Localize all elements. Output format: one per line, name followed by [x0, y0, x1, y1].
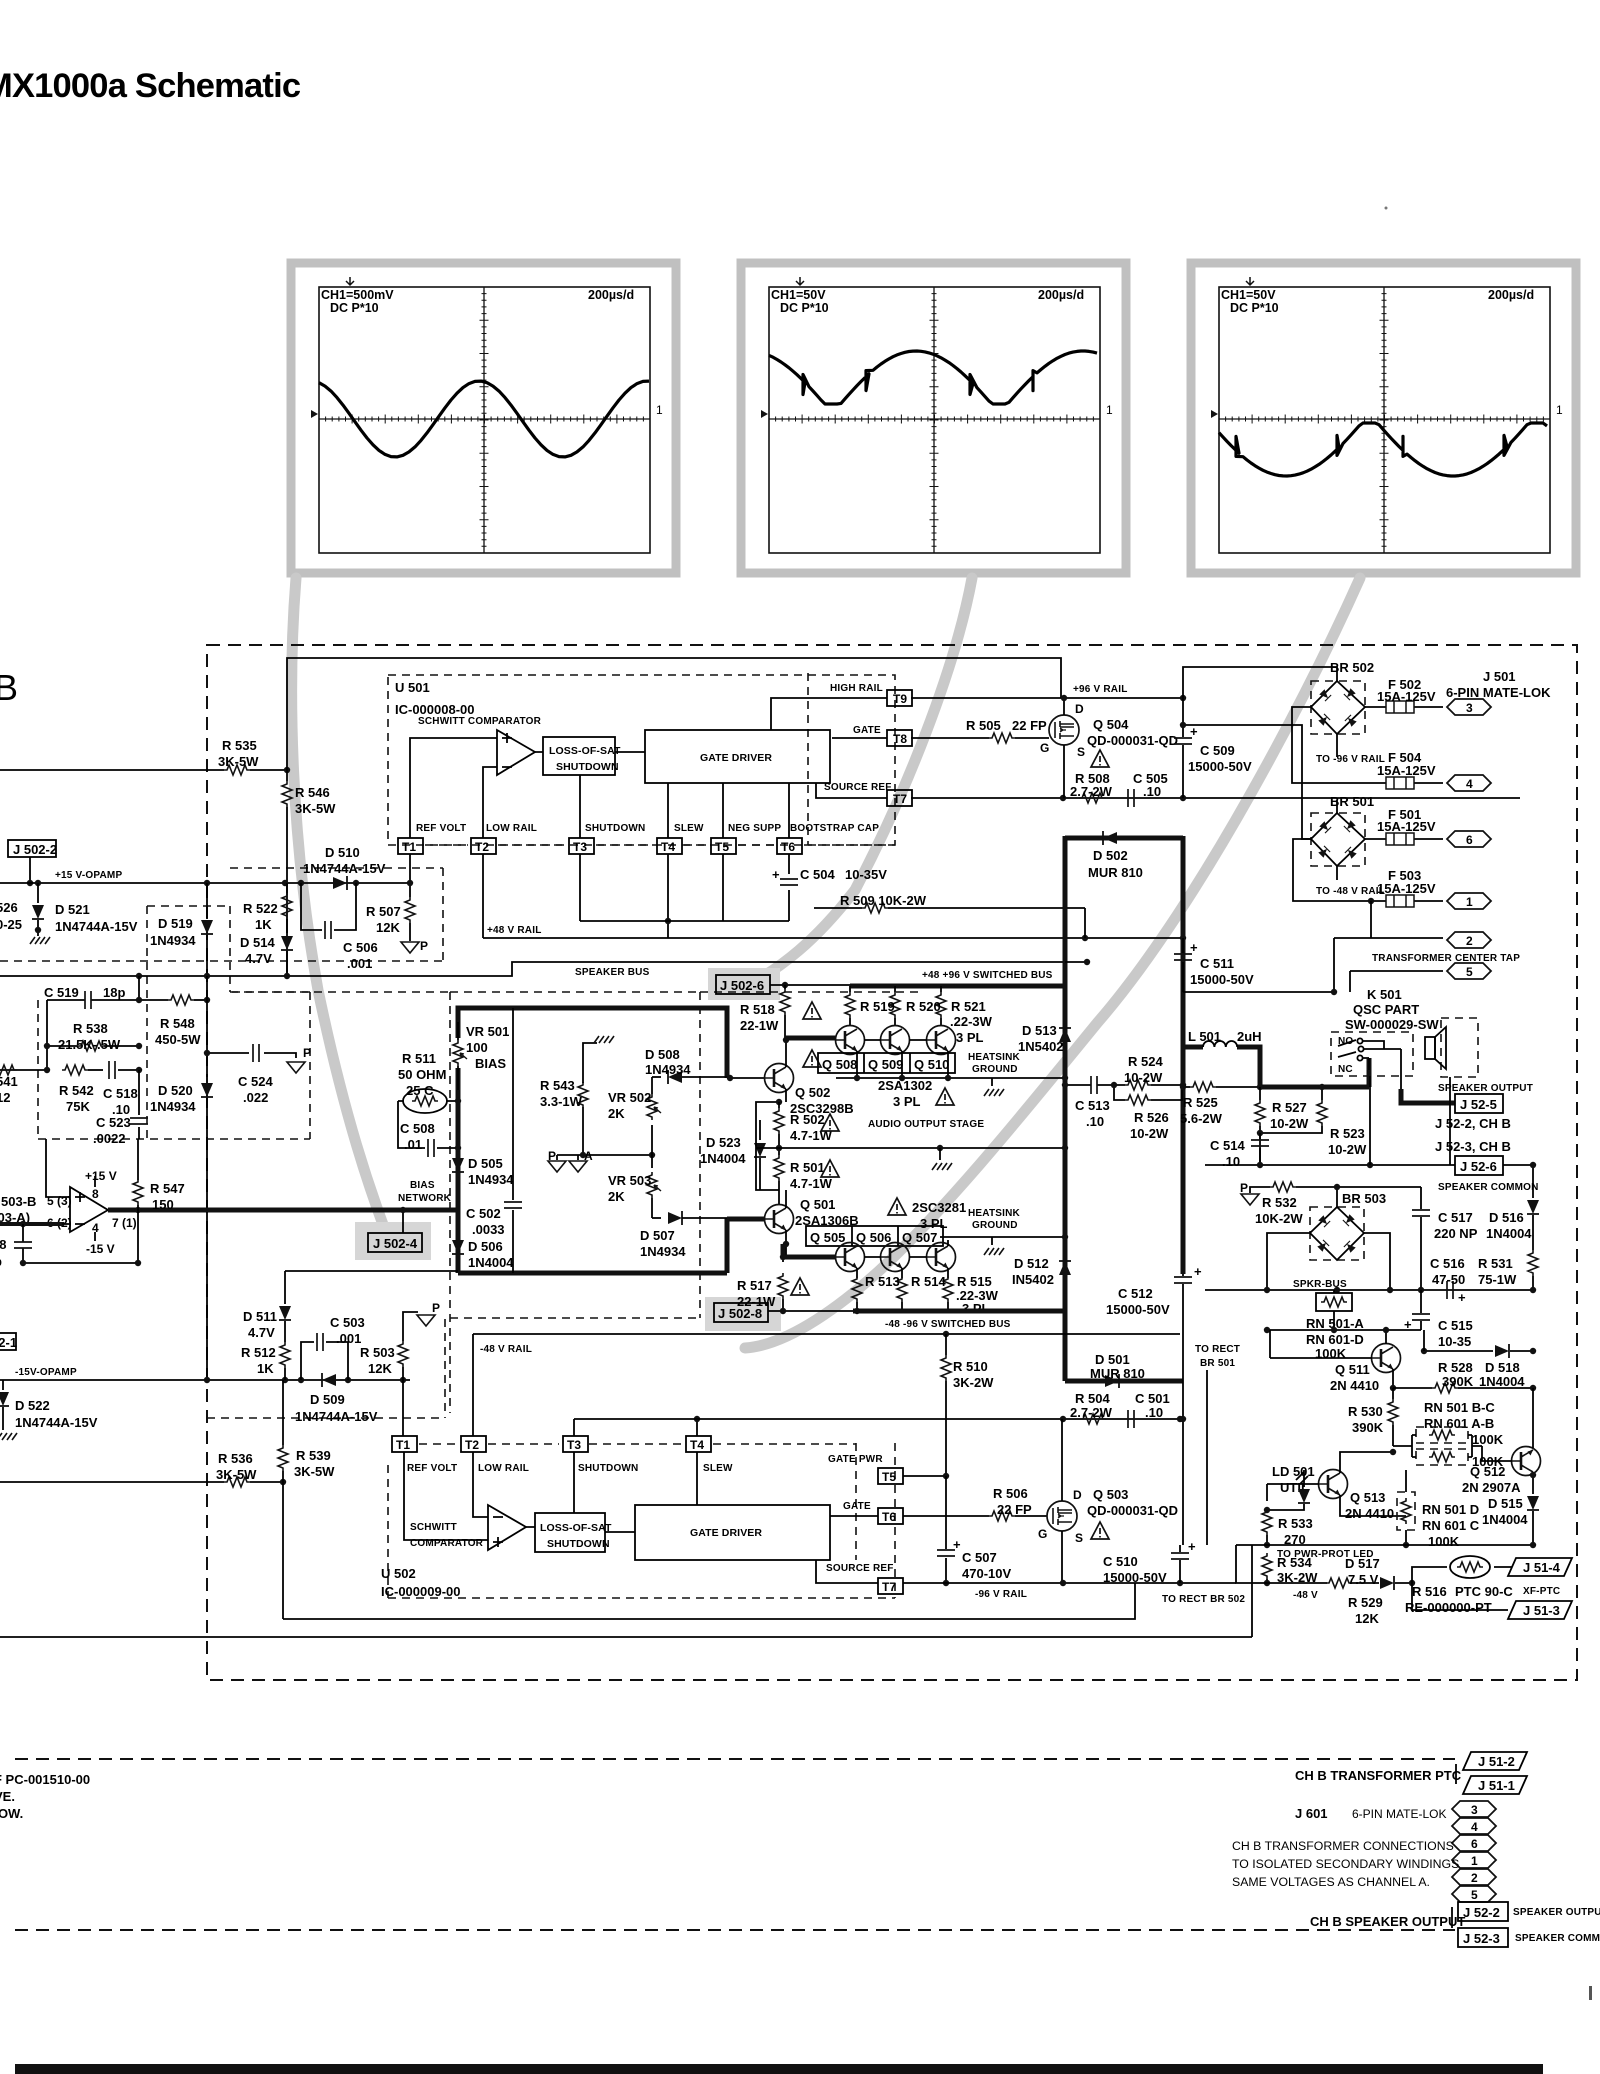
svg-text:R 520: R 520 — [906, 999, 941, 1014]
resistor R528 — [1393, 1387, 1432, 1389]
resistor R509 — [814, 908, 1085, 938]
svg-text:T8: T8 — [893, 732, 907, 746]
terminal T5 upper — [711, 838, 736, 854]
svg-text:6-PIN MATE-LOK: 6-PIN MATE-LOK — [1446, 685, 1551, 700]
wire Q512 collector to D515 — [1532, 1472, 1534, 1494]
svg-text:1N4934: 1N4934 — [150, 933, 196, 948]
svg-text:3K-5W: 3K-5W — [294, 1464, 335, 1479]
grey halo behind J502-6 — [708, 968, 780, 1000]
resistors R519 R520 R521 — [850, 986, 941, 1026]
diode D508 — [652, 1076, 661, 1078]
svg-text:5: 5 — [1466, 965, 1473, 979]
svg-text:10-2W: 10-2W — [1270, 1116, 1309, 1131]
tick J51 — [1455, 1764, 1457, 1784]
resistor R517 — [782, 1257, 784, 1262]
svg-text:.001: .001 — [336, 1331, 361, 1346]
svg-text:SCHWITT COMPARATOR: SCHWITT COMPARATOR — [418, 716, 542, 727]
terminal T6 lower — [878, 1508, 903, 1524]
svg-text:3K-5W: 3K-5W — [295, 801, 336, 816]
connector J51-4 — [1508, 1558, 1572, 1576]
svg-text:7 (1): 7 (1) — [112, 1216, 137, 1230]
svg-text:T5: T5 — [715, 840, 729, 854]
capacitor C509 — [1182, 698, 1184, 798]
svg-text:R 536: R 536 — [218, 1451, 253, 1466]
wire BR502 bottom stub — [1336, 734, 1338, 757]
svg-text:+: + — [772, 867, 780, 882]
svg-text:COMPARATOR: COMPARATOR — [410, 1538, 484, 1549]
svg-text:DC P*10: DC P*10 — [1230, 301, 1279, 315]
svg-text:D 513: D 513 — [1022, 1023, 1057, 1038]
resistor R533 — [1266, 1484, 1268, 1501]
warning R501 — [821, 1160, 839, 1177]
svg-text:LOW RAIL: LOW RAIL — [486, 823, 537, 834]
svg-text:75-1W: 75-1W — [1478, 1272, 1517, 1287]
capacitor C523 — [138, 1070, 140, 1139]
svg-text:22 FP: 22 FP — [1012, 718, 1047, 733]
svg-text:2uH: 2uH — [1237, 1029, 1262, 1044]
svg-text:15000-50V: 15000-50V — [1106, 1302, 1170, 1317]
svg-text:R 546: R 546 — [295, 785, 330, 800]
wire Q511 emitter row — [1392, 1369, 1394, 1388]
svg-text:BOOTSTRAP CAP: BOOTSTRAP CAP — [790, 823, 879, 834]
svg-text:R 533: R 533 — [1278, 1516, 1313, 1531]
svg-text:R 521: R 521 — [951, 999, 986, 1014]
wire T4 slew lower — [696, 1419, 698, 1505]
dashed box opamp feedback network — [38, 906, 310, 1139]
capacitor C501 — [1128, 1410, 1134, 1428]
svg-text:IC-000008-00: IC-000008-00 — [395, 702, 475, 717]
connector J502-4 — [368, 1233, 422, 1252]
wire op-amp -input thick — [0, 1222, 64, 1226]
wire lower bank base rail — [864, 1256, 927, 1258]
svg-text:R 522: R 522 — [243, 901, 278, 916]
bridge BR503 — [1310, 1207, 1364, 1260]
svg-text:4.7V: 4.7V — [245, 951, 272, 966]
svg-text:RN 601 A-B: RN 601 A-B — [1424, 1416, 1494, 1431]
zener D522 — [2, 1380, 4, 1390]
svg-text:10-35: 10-35 — [1438, 1334, 1471, 1349]
wire op-amp output bus — [108, 1208, 458, 1213]
diode D519 — [206, 883, 208, 918]
svg-text:C 518: C 518 — [103, 1086, 138, 1101]
svg-text:R 512: R 512 — [241, 1345, 276, 1360]
svg-text:+: + — [1458, 1290, 1466, 1305]
diode D512 — [1059, 1261, 1071, 1275]
bias network thick frame — [458, 1008, 727, 1273]
svg-text:SPEAKER COMMON: SPEAKER COMMON — [1438, 1182, 1539, 1193]
capacitor C508 — [398, 1101, 458, 1148]
svg-text:T9: T9 — [893, 692, 907, 706]
svg-text:10-2W: 10-2W — [1130, 1126, 1169, 1141]
svg-text:LOW.: LOW. — [0, 1806, 23, 1821]
svg-text:47-50: 47-50 — [1432, 1272, 1465, 1287]
svg-text:1N4934: 1N4934 — [645, 1062, 691, 1077]
svg-text:3 PL: 3 PL — [893, 1094, 921, 1109]
wire high-rail riser — [287, 658, 1061, 770]
svg-text:B: B — [0, 667, 18, 708]
svg-text:1N4934: 1N4934 — [640, 1244, 686, 1259]
svg-text:SHUTDOWN: SHUTDOWN — [547, 1538, 610, 1550]
svg-text:R 535: R 535 — [222, 738, 257, 753]
wire T7 source ref — [816, 783, 1063, 798]
pin 1 hex — [1447, 893, 1491, 909]
svg-text:GATE DRIVER: GATE DRIVER — [700, 752, 772, 764]
transistor Q505 — [836, 1243, 865, 1272]
grey photo-callout swoosh to J502-8 — [745, 578, 1360, 1348]
connector J502-6 — [716, 975, 770, 994]
svg-text:RN 501 D: RN 501 D — [1422, 1502, 1479, 1517]
svg-text:.0022: .0022 — [93, 1131, 126, 1146]
connector J52-5 — [1455, 1094, 1503, 1113]
wire audio mid rail — [756, 1147, 1065, 1149]
svg-text:R 548: R 548 — [160, 1016, 195, 1031]
svg-text:1N4934: 1N4934 — [150, 1099, 196, 1114]
svg-text:C 515: C 515 — [1438, 1318, 1473, 1333]
capacitor C515 — [1420, 1290, 1422, 1330]
wire T4 slew — [667, 783, 669, 938]
svg-text:MUR 810: MUR 810 — [1090, 1366, 1145, 1381]
svg-text:IC-000009-00: IC-000009-00 — [381, 1584, 461, 1599]
scope 2 graticule ticks — [769, 287, 1100, 553]
resistor R541 cut — [0, 1069, 47, 1071]
svg-text:T7: T7 — [893, 792, 907, 806]
svg-text:Q 501: Q 501 — [800, 1197, 835, 1212]
svg-text:C 510: C 510 — [1103, 1554, 1138, 1569]
svg-text:200µs/d: 200µs/d — [1488, 288, 1534, 302]
svg-text:R 511: R 511 — [402, 1051, 436, 1066]
wire op-amp feedback bottom — [23, 1210, 138, 1263]
svg-text:+96 V RAIL: +96 V RAIL — [1073, 684, 1128, 695]
wire SPKR bus rail — [1205, 1289, 1533, 1291]
svg-text:MX1000a Schematic: MX1000a Schematic — [0, 67, 301, 105]
svg-text:0-25: 0-25 — [0, 917, 22, 932]
svg-text:PTC 90-C: PTC 90-C — [1455, 1584, 1513, 1599]
svg-text:15000-50V: 15000-50V — [1103, 1570, 1167, 1585]
svg-text:C 503: C 503 — [330, 1315, 365, 1330]
ground A bias — [577, 1155, 579, 1160]
svg-text:G: G — [1038, 1527, 1047, 1541]
scan speck — [1589, 1986, 1592, 2000]
scan speck top — [1385, 207, 1388, 210]
svg-text:15A-125V: 15A-125V — [1377, 881, 1436, 896]
svg-text:.022: .022 — [243, 1090, 268, 1105]
zener D514 — [281, 936, 293, 950]
svg-text:J 52-3, CH B: J 52-3, CH B — [1435, 1139, 1511, 1154]
svg-text:1: 1 — [1471, 1854, 1478, 1868]
svg-text:CH B SPEAKER OUTPUT: CH B SPEAKER OUTPUT — [1310, 1914, 1465, 1929]
svg-text:C 512: C 512 — [1118, 1286, 1153, 1301]
comparator U502 — [488, 1505, 526, 1550]
block LOSS-OF-SAT U502 — [535, 1513, 605, 1552]
svg-text:R 532: R 532 — [1262, 1195, 1297, 1210]
svg-text:10-2W: 10-2W — [1328, 1142, 1367, 1157]
scope 1 graticule — [319, 287, 650, 553]
transistor Q502 — [765, 1064, 794, 1093]
svg-text:.10: .10 — [1143, 784, 1161, 799]
wire Q502 emitter column — [756, 1089, 786, 1190]
svg-text:RE-000000-PT: RE-000000-PT — [1405, 1600, 1492, 1615]
svg-text:P: P — [1240, 1181, 1248, 1195]
svg-text:TO -96 V RAIL: TO -96 V RAIL — [1316, 754, 1385, 765]
svg-text:Q 505: Q 505 — [810, 1230, 845, 1245]
svg-text:J 52-2, CH B: J 52-2, CH B — [1435, 1116, 1511, 1131]
svg-text:Q 509: Q 509 — [868, 1057, 903, 1072]
svg-text:R 503: R 503 — [360, 1345, 395, 1360]
svg-text:1: 1 — [1466, 895, 1473, 909]
svg-text:4: 4 — [1471, 1820, 1478, 1834]
svg-text:C 502: C 502 — [466, 1206, 501, 1221]
pin 2 hex — [1447, 932, 1491, 948]
svg-text:Q 504: Q 504 — [1093, 717, 1129, 732]
svg-text:P: P — [548, 1149, 556, 1163]
warning 2SA1302 — [936, 1088, 954, 1105]
svg-text:1N4744A-15V: 1N4744A-15V — [303, 861, 386, 876]
svg-text:220 NP: 220 NP — [1434, 1226, 1478, 1241]
svg-text:D 521: D 521 — [55, 902, 90, 917]
capacitor C516 — [1447, 1281, 1453, 1299]
capacitor C507 — [945, 1476, 947, 1583]
wire T6 gate — [830, 1515, 989, 1517]
svg-text:8: 8 — [92, 1187, 99, 1201]
ground heatsink R543 — [594, 1036, 614, 1043]
resistor R510 — [945, 1334, 947, 1355]
svg-text:-15V-OPAMP: -15V-OPAMP — [15, 1367, 77, 1378]
svg-text:R 506: R 506 — [993, 1486, 1028, 1501]
wire Q501 collector-emitter — [785, 1190, 787, 1208]
pin 6 hex chB — [1452, 1835, 1496, 1851]
capacitor C503 loop — [301, 1342, 348, 1380]
svg-text:C 507: C 507 — [962, 1550, 997, 1565]
pin 4 hex chB — [1452, 1818, 1496, 1834]
svg-text:+48 +96 V SWITCHED BUS: +48 +96 V SWITCHED BUS — [922, 970, 1053, 981]
svg-text:R 526: R 526 — [1134, 1110, 1169, 1125]
svg-text:R 517: R 517 — [737, 1278, 772, 1293]
terminal T7 — [887, 790, 912, 806]
svg-text:SAME VOLTAGES AS CHANNEL A.: SAME VOLTAGES AS CHANNEL A. — [1232, 1875, 1430, 1889]
svg-text:T1: T1 — [396, 1438, 410, 1452]
grey photo-callout swoosh to J502-4 — [292, 578, 385, 1230]
resistor R522 — [286, 883, 288, 895]
wire T5 gate pwr — [903, 1475, 946, 1477]
wire long return — [0, 1545, 1252, 1637]
svg-text:HIGH RAIL: HIGH RAIL — [830, 683, 883, 694]
svg-text:HEATSINK: HEATSINK — [968, 1052, 1021, 1063]
svg-text:J 51-4: J 51-4 — [1523, 1560, 1561, 1575]
svg-text:GATE PWR: GATE PWR — [828, 1454, 883, 1465]
thermistor R511 — [403, 1089, 447, 1113]
connector J51-1 — [1463, 1776, 1527, 1794]
svg-text:P: P — [432, 1301, 440, 1315]
svg-text:10-35V: 10-35V — [845, 867, 887, 882]
diode D523 — [759, 1120, 761, 1140]
svg-text:J 52-2: J 52-2 — [1463, 1905, 1500, 1920]
svg-text:1N4004: 1N4004 — [700, 1151, 746, 1166]
terminal T1 lower — [392, 1436, 417, 1452]
capacitor C514 — [1259, 1133, 1261, 1165]
resistor R527 — [1259, 1087, 1261, 1100]
svg-text:15A-125V: 15A-125V — [1377, 819, 1436, 834]
resistor network RN501-D dashed — [1397, 1492, 1415, 1530]
resistor R523 — [1321, 1087, 1323, 1100]
thick wire Q505 base feed — [783, 1244, 836, 1257]
svg-text:SPEAKER BUS: SPEAKER BUS — [575, 967, 650, 978]
svg-text:TRANSFORMER CENTER TAP: TRANSFORMER CENTER TAP — [1372, 953, 1520, 964]
oscilloscope photo 2 frame — [741, 263, 1126, 573]
svg-text:10-2W: 10-2W — [1124, 1070, 1163, 1085]
svg-text:3: 3 — [1471, 1803, 1478, 1817]
svg-text:CH1=50V: CH1=50V — [771, 288, 826, 302]
connector J52-3 — [1458, 1928, 1508, 1947]
svg-text:C 511: C 511 — [1200, 956, 1234, 971]
svg-text:2.7-2W: 2.7-2W — [1070, 784, 1113, 799]
svg-text:15A-125V: 15A-125V — [1377, 763, 1436, 778]
svg-text:5.6-2W: 5.6-2W — [1180, 1111, 1223, 1126]
capacitor C504 — [780, 879, 798, 885]
comparator U501 — [497, 730, 535, 775]
svg-text:15000-50V: 15000-50V — [1188, 759, 1252, 774]
svg-text:1N4004: 1N4004 — [468, 1255, 514, 1270]
connector J502-8 — [714, 1303, 768, 1322]
fuse F504 — [1414, 782, 1443, 784]
resistor R512 — [280, 1342, 290, 1368]
dashed separator channel B lower — [15, 1929, 1455, 1931]
svg-text:R 501: R 501 — [790, 1160, 825, 1175]
svg-text:200µs/d: 200µs/d — [588, 288, 634, 302]
ground D521 — [30, 937, 50, 944]
wire left rect feed — [1206, 1370, 1208, 1545]
svg-text:22-1W: 22-1W — [737, 1294, 776, 1309]
svg-text:P: P — [420, 939, 428, 953]
resistor R531 — [1528, 1250, 1538, 1276]
svg-text:+15 V-OPAMP: +15 V-OPAMP — [55, 870, 122, 881]
svg-text:C 501: C 501 — [1135, 1391, 1170, 1406]
wire +96V rail — [1061, 697, 1183, 699]
dashed box gate signals T5-T7 lower — [855, 1443, 857, 1560]
svg-text:18p: 18p — [103, 985, 125, 1000]
resistor R529 — [1326, 1578, 1352, 1588]
transistor Q507 — [927, 1243, 956, 1272]
svg-text:1N4744A-15V: 1N4744A-15V — [295, 1409, 378, 1424]
svg-text:CH B TRANSFORMER CONNECTIONS: CH B TRANSFORMER CONNECTIONS — [1232, 1839, 1454, 1853]
svg-text:12K: 12K — [368, 1361, 392, 1376]
dashed box -15V regulator — [207, 1319, 445, 1418]
scope 2 trace — [769, 351, 1097, 404]
capacitor C505 — [1128, 789, 1134, 807]
svg-text:R 542: R 542 — [59, 1083, 94, 1098]
fuse F501 — [1365, 838, 1443, 840]
svg-text:D 518: D 518 — [1485, 1360, 1520, 1375]
svg-text:390K: 390K — [1352, 1420, 1384, 1435]
wire comparator inputs — [410, 738, 497, 838]
scope 3 graticule ticks — [1219, 287, 1550, 553]
svg-text:R 507: R 507 — [366, 904, 401, 919]
svg-text:J 51-1: J 51-1 — [1478, 1778, 1515, 1793]
svg-text:S: S — [1075, 1531, 1083, 1545]
svg-text:QD-000031-QD: QD-000031-QD — [1087, 1503, 1178, 1518]
transistor Q501 — [765, 1205, 794, 1234]
svg-text:2SC3281: 2SC3281 — [912, 1200, 966, 1215]
svg-text:C 514: C 514 — [1210, 1138, 1245, 1153]
trimmer VR502 — [651, 1125, 653, 1155]
wire relay NC leg — [1368, 1058, 1370, 1070]
svg-text:R 524: R 524 — [1128, 1054, 1163, 1069]
svg-text:1N4744A-15V: 1N4744A-15V — [15, 1415, 98, 1430]
warning R517 bank — [791, 1278, 809, 1295]
svg-text:GROUND: GROUND — [972, 1220, 1018, 1231]
svg-text:R 513: R 513 — [865, 1274, 900, 1289]
svg-text:R 519: R 519 — [860, 999, 895, 1014]
svg-text:+48 V RAIL: +48 V RAIL — [487, 925, 542, 936]
resistor R532 — [1250, 1187, 1270, 1193]
svg-text:541: 541 — [0, 1074, 18, 1089]
svg-text:R 502: R 502 — [790, 1112, 825, 1127]
svg-text:R 509 10K-2W: R 509 10K-2W — [840, 893, 927, 908]
svg-text:T3: T3 — [567, 1438, 581, 1452]
thermal resistor R516 PTC — [1412, 1567, 1447, 1583]
ground heatsink upper — [991, 1078, 993, 1086]
wire to J51-3 — [1412, 1583, 1508, 1610]
svg-text:+15 V: +15 V — [85, 1169, 117, 1183]
capacitor C506 loop — [301, 883, 356, 930]
svg-text:Q 512: Q 512 — [1470, 1464, 1505, 1479]
svg-text:J 51-3: J 51-3 — [1523, 1603, 1560, 1618]
oscilloscope photo 1 frame — [291, 263, 676, 573]
svg-text:1: 1 — [1556, 403, 1563, 417]
svg-text:1: 1 — [656, 403, 663, 417]
svg-text:R 529: R 529 — [1348, 1595, 1383, 1610]
svg-text:3.3-1W: 3.3-1W — [540, 1094, 583, 1109]
connector J502-1 cut — [0, 1333, 16, 1350]
wire speaker bus crossing — [1065, 961, 1087, 963]
svg-text:T6: T6 — [882, 1510, 896, 1524]
svg-text:Q 508: Q 508 — [822, 1057, 857, 1072]
wire protection bottom rail — [1267, 1582, 1412, 1584]
svg-text:1K: 1K — [257, 1361, 274, 1376]
wire center tap pin2 — [1334, 938, 1443, 992]
svg-text:D 502: D 502 — [1093, 848, 1128, 863]
svg-text:.10: .10 — [1222, 1154, 1240, 1169]
svg-text:1K: 1K — [255, 917, 272, 932]
wire to BR501 — [1183, 725, 1311, 839]
svg-text:450-5W: 450-5W — [155, 1032, 201, 1047]
wire high rail to T9 — [771, 698, 1061, 730]
wire T1 refvolt column — [403, 1380, 488, 1540]
resistor R502 — [774, 1108, 784, 1134]
diode D502 thick rail — [1065, 836, 1183, 841]
svg-text:D 520: D 520 — [158, 1083, 193, 1098]
svg-text:DC P*10: DC P*10 — [330, 301, 379, 315]
svg-text:526: 526 — [0, 900, 18, 915]
svg-text:+: + — [1190, 724, 1198, 739]
svg-text:P: P — [303, 1046, 311, 1060]
svg-text:1N5402: 1N5402 — [1018, 1039, 1064, 1054]
svg-text:-48 V RAIL: -48 V RAIL — [480, 1344, 532, 1355]
svg-text:R 515: R 515 — [957, 1274, 992, 1289]
svg-text:R 530: R 530 — [1348, 1404, 1383, 1419]
svg-text:2.7-2W: 2.7-2W — [1070, 1405, 1113, 1420]
svg-text:C 524: C 524 — [238, 1074, 273, 1089]
wire J502-6 to bus — [770, 984, 850, 986]
capacitor C519 — [47, 976, 139, 1070]
dashed line feedback network top — [230, 991, 920, 993]
resistor R538 — [47, 1045, 139, 1047]
svg-text:CH B TRANSFORMER PTC: CH B TRANSFORMER PTC — [1295, 1768, 1462, 1783]
wire relay common down — [1400, 1049, 1402, 1100]
svg-text:K 501: K 501 — [1367, 987, 1402, 1002]
svg-text:BR 503: BR 503 — [1342, 1191, 1386, 1206]
resistor R548 — [139, 999, 168, 1001]
svg-text:1N4004: 1N4004 — [1479, 1374, 1525, 1389]
